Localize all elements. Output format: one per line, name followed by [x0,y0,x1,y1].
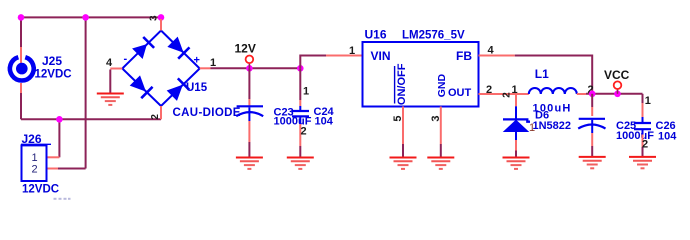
regulator U16 box [363,42,479,107]
svg-text:GND: GND [436,74,448,98]
svg-text:3: 3 [430,115,442,121]
diode D6 leads [515,94,517,157]
junction dot 12V node [246,65,253,72]
svg-text:100uH: 100uH [533,102,572,114]
bridge pin1 stub right [200,67,211,69]
inductor L1 [529,88,577,94]
capacitor C25 polarized plates [578,119,605,133]
svg-text:2: 2 [150,114,161,120]
svg-text:2: 2 [486,84,492,96]
ground under ON/OFF [390,158,417,169]
ground under D6 [503,158,530,169]
wire C24 node up to VIN [300,56,326,69]
svg-text:+: + [194,55,200,67]
svg-text:LM2576_5V: LM2576_5V [402,29,465,41]
capacitor C24 leads [299,68,301,156]
L1 right stub [577,93,586,95]
svg-text:12VDC: 12VDC [35,69,72,81]
U16 FB pin stub [479,55,515,57]
svg-text:2: 2 [642,139,648,151]
svg-text:2: 2 [31,163,37,175]
wire J25 upper lead [20,17,22,47]
connector J26 [22,145,47,181]
VCC power port circle [614,81,622,93]
diode top-right of bridge [168,37,189,58]
svg-text:1: 1 [512,84,518,96]
svg-text:VCC: VCC [604,68,630,82]
svg-text:104: 104 [315,116,334,128]
svg-text:OUT: OUT [448,87,472,99]
capacitor C23 polarized plates [236,106,263,121]
VIN pin stub [326,55,363,57]
wire GND to ground [440,144,442,157]
diode D6 schottky body [503,119,530,131]
diode top-left of bridge [133,37,154,58]
svg-text:1N5822: 1N5822 [533,120,572,132]
wire L1 to VCC node [586,93,643,95]
U16 OUT pin stub [479,93,529,95]
wire J26 pin1 stub [47,156,60,158]
capacitor C25 leads [591,94,593,156]
connector J25 [10,57,34,80]
junction dot top-middle [82,14,89,21]
wire bottom horizontal to bridge pin2 [21,118,161,120]
svg-text:1000uF: 1000uF [616,130,654,142]
svg-text:3: 3 [148,15,159,21]
ground under C26 [629,157,656,168]
svg-text:-: - [124,53,128,65]
wire bridge pin1 to C24 node [211,67,301,69]
bridge pin3 stub top [160,19,162,31]
capacitor C23 leads [248,68,250,156]
capacitor C26 plates [634,123,651,129]
svg-text:1: 1 [303,85,309,97]
svg-text:2: 2 [301,125,307,137]
diode bottom-right of bridge [168,78,190,100]
12V power port circle [246,56,254,69]
bridge pin4 stub left [110,68,122,70]
U16 ON/OFF pin stub down [402,107,404,145]
junction dot top-left [18,14,25,21]
svg-text:CAU-DIODE: CAU-DIODE [173,107,241,119]
ground under C24 [287,158,314,169]
wire J25 pin stub upper (salmon) [20,47,22,64]
wire ON/OFF to ground [402,144,404,157]
svg-text:12VDC: 12VDC [22,184,59,196]
svg-text:104: 104 [658,131,677,143]
svg-text:L1: L1 [535,67,549,81]
junction dot switch node [589,91,596,98]
bridge pin2 stub bottom [160,106,162,119]
svg-text:5: 5 [392,115,404,121]
junction dot J26 pin1 [56,116,63,123]
U16 GND pin stub down [440,107,442,145]
wire J25 pin stub lower (salmon) [20,83,22,93]
capacitor C26 leads [642,94,644,156]
wire FB to feedback node [515,56,592,94]
wire J26 pin2 riser to top net [85,16,87,168]
capacitor C24 plates [292,111,309,116]
junction dot C24 node [297,65,304,72]
svg-text:12V: 12V [235,41,256,55]
junction dot VCC [614,91,621,98]
svg-text:U16: U16 [365,27,387,41]
J26 label underline [21,143,51,145]
junction dot bridge top [158,14,165,21]
bridge U15 diamond [122,31,199,107]
wire J26 pin1 riser [58,119,60,157]
svg-text:ON/OFF: ON/OFF [396,63,408,105]
wire J26 pin2 horizontal [58,168,86,170]
diode bottom-left of bridge [131,76,153,98]
svg-text:4: 4 [487,45,494,57]
svg-text:1: 1 [31,152,37,164]
ground under C25 [579,157,606,168]
svg-text:1: 1 [645,95,651,107]
U16 ON/OFF overbar [394,66,396,104]
wire top horizontal J25/J26 to bridge pin3 [21,16,161,18]
svg-text:FB: FB [456,49,472,63]
ground under GND pin [427,158,454,169]
ground at bridge pin4 [97,70,124,105]
svg-text:VIN: VIN [371,49,391,63]
wire J26 pin2 stub [47,168,59,170]
wire J25 lower lead [20,93,22,119]
svg-text:J25: J25 [42,54,62,68]
svg-text:4: 4 [106,57,113,69]
svg-text:U15: U15 [186,82,208,94]
ground under C23 [236,158,263,169]
svg-text:1: 1 [349,45,355,57]
stray grey marks bottom left [54,198,71,200]
